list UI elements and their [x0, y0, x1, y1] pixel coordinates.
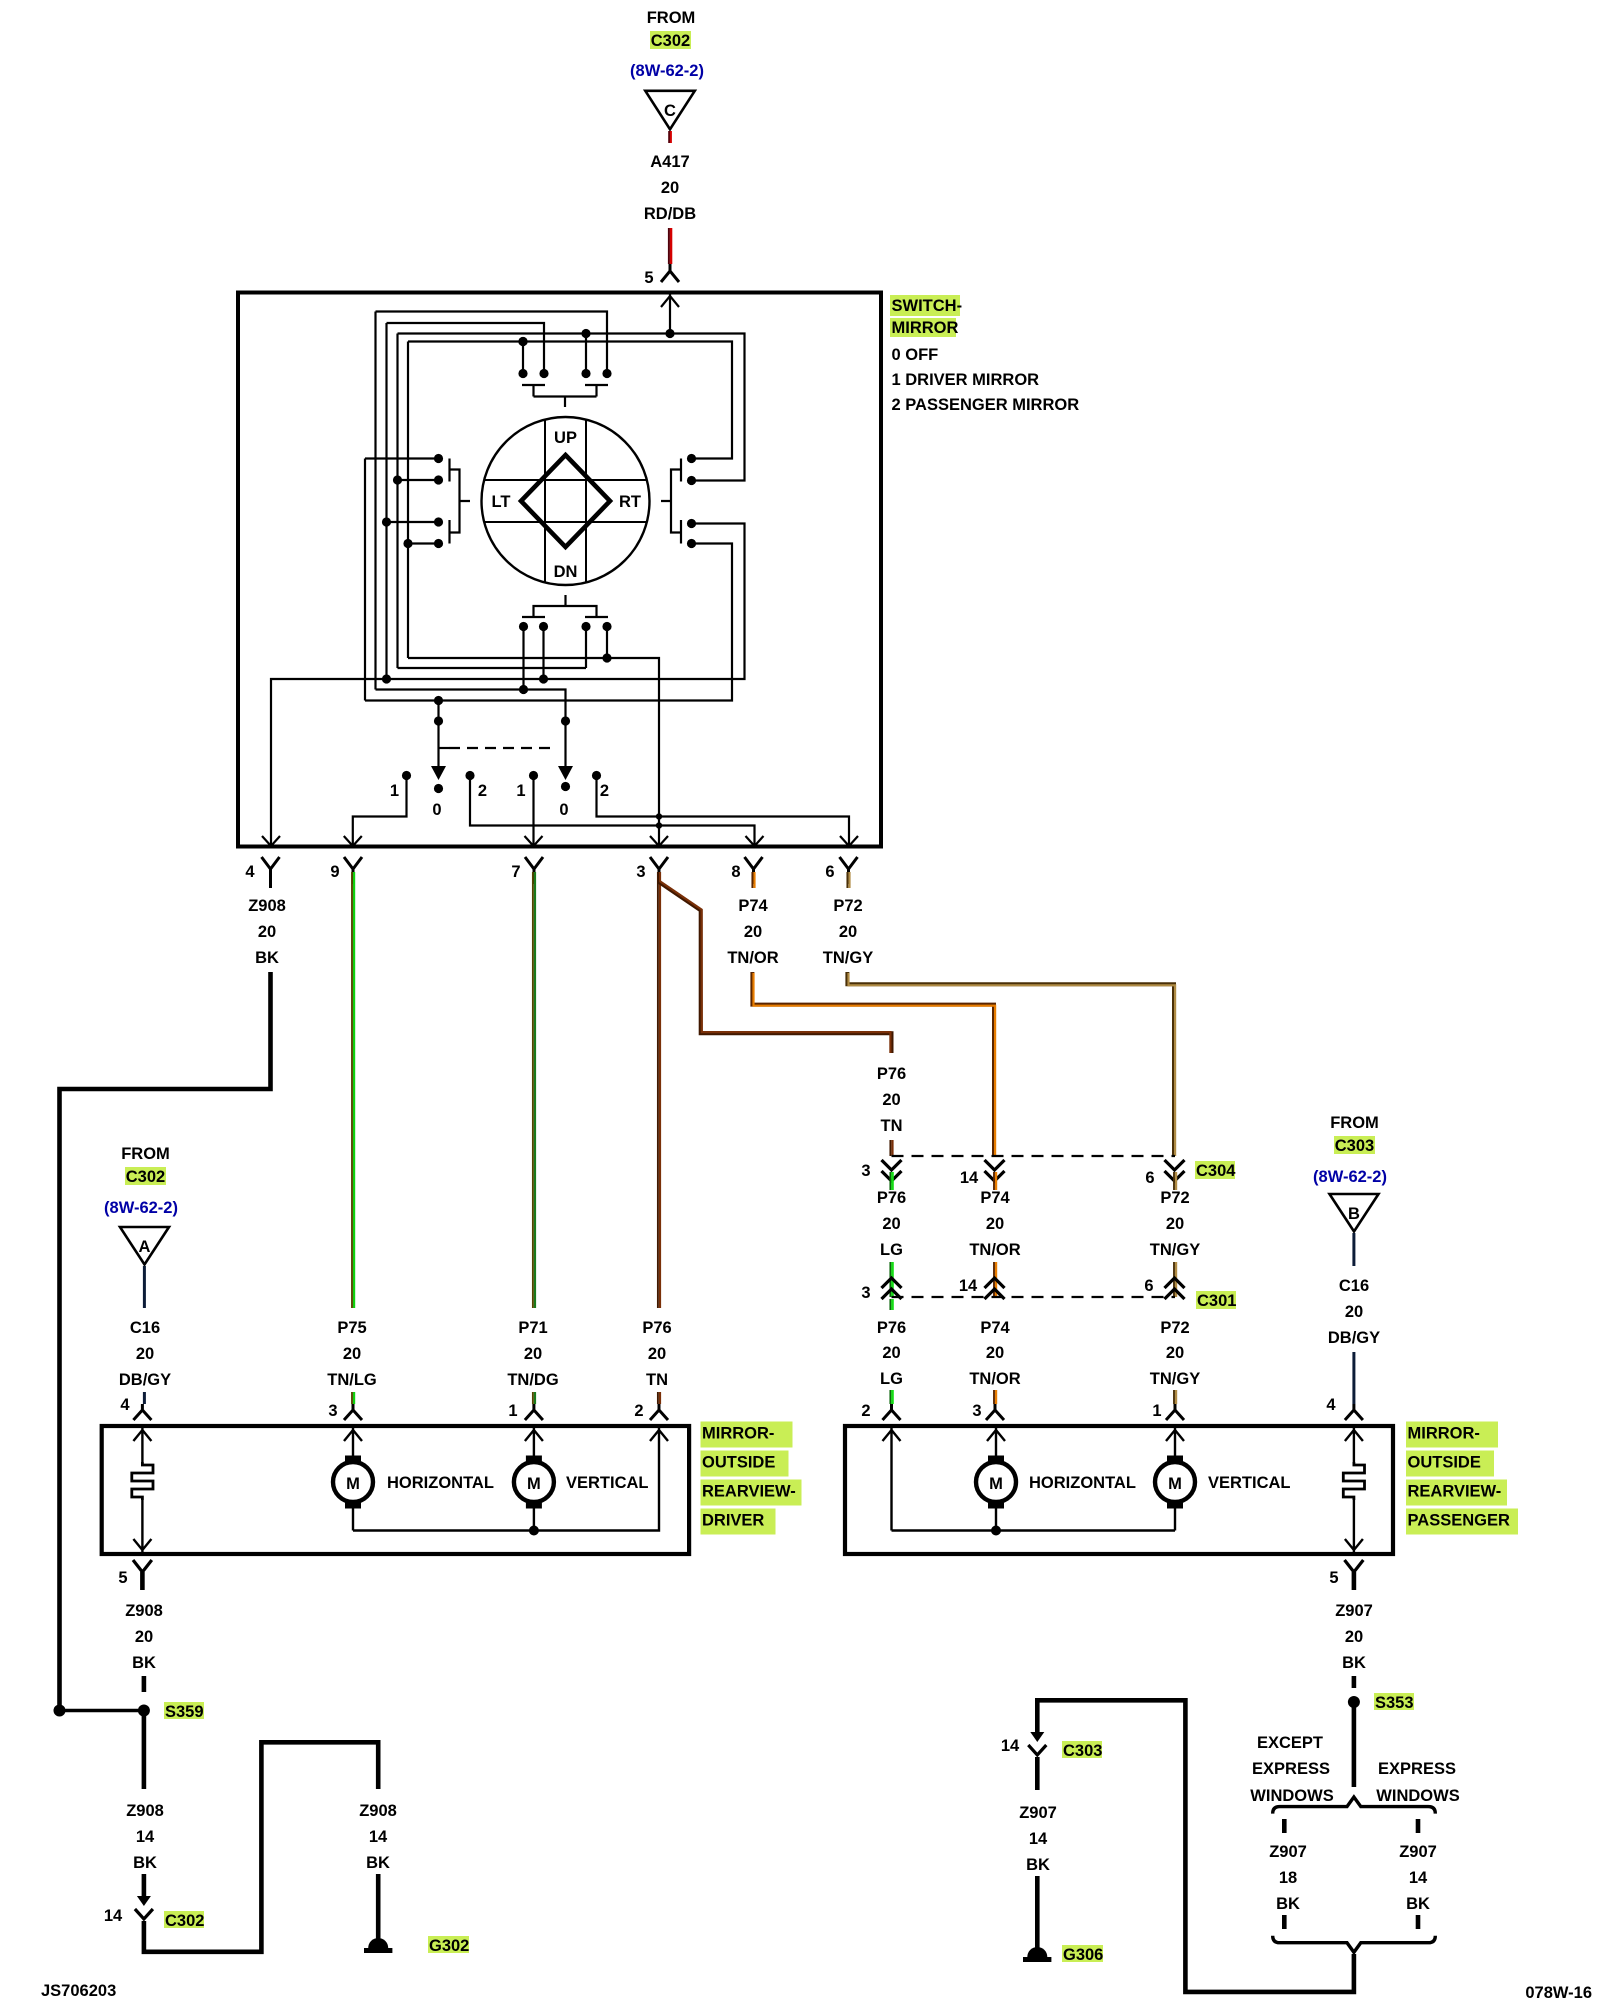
svg-text:14: 14 — [960, 1169, 979, 1187]
left switch contact bars — [448, 459, 450, 544]
right selector moving contact arrow — [558, 766, 573, 780]
switch pin 6 fork — [840, 857, 858, 884]
svg-text:P74: P74 — [980, 1189, 1010, 1207]
svg-text:C303: C303 — [1063, 1742, 1102, 1760]
svg-text:1: 1 — [1152, 1402, 1161, 1420]
wire P72 stub to passenger pin 1 — [1173, 1390, 1175, 1404]
driver mirror pin 2 fork — [650, 1404, 668, 1420]
driver mirror pin 5 fork — [133, 1560, 152, 1572]
svg-text:Z908: Z908 — [126, 1802, 164, 1820]
svg-text:S353: S353 — [1375, 1694, 1414, 1712]
selector diamond — [521, 455, 610, 547]
right switch contact bars — [680, 459, 682, 544]
passenger horizontal motor feed wire — [987, 1428, 1005, 1456]
svg-text:OUTSIDE: OUTSIDE — [1408, 1454, 1481, 1472]
dashed mechanical link between selectors — [439, 747, 450, 749]
wire P76 stub to driver pin 2 — [657, 1392, 659, 1404]
svg-text:P76: P76 — [877, 1319, 906, 1337]
svg-text:20: 20 — [986, 1215, 1004, 1233]
svg-text:20: 20 — [135, 1628, 153, 1646]
wire C16 DB/GY stub to driver pin 4 — [143, 1392, 146, 1404]
svg-text:TN/OR: TN/OR — [969, 1370, 1020, 1388]
svg-text:BK: BK — [366, 1854, 390, 1872]
wire Z907 route to C303 — [1037, 1700, 1354, 1992]
svg-text:MIRROR: MIRROR — [892, 319, 959, 337]
connector C301 pin 6 chevrons — [1165, 1278, 1185, 1299]
splice S353 — [1348, 1696, 1360, 1708]
wire net-A top horizontal to rocker line4 — [376, 312, 608, 374]
passenger horizontal motor M3 — [976, 1456, 1016, 1509]
wire Z907 stub above S353 — [1352, 1676, 1357, 1688]
left switch contact lead 1 — [365, 457, 439, 459]
passenger common feed wire pin2 — [883, 1428, 901, 1531]
svg-text:DB/GY: DB/GY — [119, 1371, 171, 1389]
driver mirror pin 4 fork — [133, 1404, 151, 1420]
wire Z908 staircase from C302 to G302 — [144, 1742, 378, 1952]
junction dots rocker top row — [518, 369, 527, 378]
svg-text:Z907: Z907 — [1399, 1843, 1437, 1861]
svg-text:C302: C302 — [651, 32, 690, 50]
svg-text:C: C — [664, 102, 676, 120]
svg-text:P75: P75 — [337, 1319, 366, 1337]
svg-text:EXCEPT: EXCEPT — [1257, 1734, 1323, 1752]
svg-text:18: 18 — [1279, 1869, 1297, 1887]
svg-text:BK: BK — [1406, 1895, 1430, 1913]
svg-text:1: 1 — [390, 782, 399, 800]
node C303 highlight label — [1334, 1136, 1375, 1154]
svg-text:14: 14 — [369, 1828, 388, 1846]
driver horizontal motor M1 — [333, 1456, 373, 1509]
rocker bottom bracket — [534, 606, 597, 617]
left switch contact lead 3 — [387, 521, 439, 523]
rocker stub A — [522, 627, 524, 690]
svg-text:2: 2 — [861, 1402, 870, 1420]
driver mirror pin 1 fork — [525, 1404, 543, 1420]
off-page connector triangle B — [1330, 1194, 1379, 1232]
svg-text:Z907: Z907 — [1269, 1843, 1307, 1861]
driver vertical motor feed wire — [525, 1428, 543, 1456]
wire A417 RD/DB vertical into switch pin 5 — [668, 228, 670, 264]
left switch contact lead 2 — [398, 479, 439, 481]
svg-text:TN/DG: TN/DG — [507, 1371, 558, 1389]
wire pin5 entry arrow up — [661, 296, 679, 307]
junction dot passenger rail — [991, 1526, 1001, 1536]
junction dots rocker bottom stubs — [519, 622, 528, 631]
svg-text:A417: A417 — [650, 153, 689, 171]
wire stub lower left option — [1282, 1915, 1287, 1929]
wire A417 RD/DB stub below triangle C — [668, 131, 670, 143]
svg-text:WINDOWS: WINDOWS — [1376, 1787, 1459, 1805]
svg-text:6: 6 — [1144, 1277, 1153, 1295]
svg-text:EXPRESS: EXPRESS — [1378, 1760, 1456, 1778]
pin 4 exit arrow — [262, 836, 280, 846]
driver mirror box — [102, 1426, 689, 1554]
svg-text:C302: C302 — [165, 1912, 204, 1930]
wire P74 TN/OR route to C304 pin 14 — [752, 972, 994, 1156]
svg-text:TN/LG: TN/LG — [327, 1371, 377, 1389]
passenger mirror pin 5 fork — [1345, 1560, 1364, 1572]
svg-text:P74: P74 — [980, 1319, 1010, 1337]
wire net-A bottom horizontal to right selector center — [376, 690, 566, 768]
pin 8 exit arrow — [746, 836, 764, 846]
junction dots selector verticals — [434, 716, 443, 725]
svg-text:HORIZONTAL: HORIZONTAL — [387, 1474, 494, 1492]
option split brace upper — [1273, 1797, 1436, 1814]
wire net-D top horizontal (rocker line1 / right contact1) — [408, 342, 732, 459]
passenger mirror pin 2 fork — [883, 1404, 901, 1420]
left switch lead junction dots on bundle — [393, 475, 402, 484]
connector C304 pin 3 chevrons — [882, 1160, 902, 1181]
junction dot rocker line3 top — [581, 329, 590, 338]
passenger mirror pin 4 fork — [1345, 1404, 1363, 1420]
driver vertical motor bottom lead — [533, 1508, 535, 1531]
svg-text:DRIVER: DRIVER — [702, 1512, 764, 1530]
connector C304 pin 14 chevrons — [985, 1160, 1005, 1181]
wire P74 TN/OR from switch pin 8 — [751, 872, 753, 888]
wire P76 TN branch diagonal to passenger feed — [659, 882, 892, 1053]
driver mirror heater element — [132, 1462, 153, 1500]
svg-text:1 DRIVER MIRROR: 1 DRIVER MIRROR — [892, 371, 1040, 389]
svg-text:3: 3 — [861, 1284, 870, 1302]
svg-text:5: 5 — [644, 269, 653, 287]
svg-text:C16: C16 — [130, 1319, 160, 1337]
wire Z908 below S359 — [142, 1711, 147, 1790]
svg-text:BK: BK — [1276, 1895, 1300, 1913]
svg-text:OUTSIDE: OUTSIDE — [702, 1454, 775, 1472]
svg-text:TN/OR: TN/OR — [727, 949, 778, 967]
passenger mirror box — [845, 1426, 1393, 1554]
svg-text:TN: TN — [646, 1371, 668, 1389]
svg-text:DB/GY: DB/GY — [1328, 1329, 1380, 1347]
wire P72 TN/GY stub into C301 — [1173, 1262, 1175, 1297]
svg-text:14: 14 — [1409, 1869, 1428, 1887]
selector circle — [482, 417, 650, 585]
svg-text:20: 20 — [136, 1345, 154, 1363]
svg-text:3: 3 — [636, 863, 645, 881]
passenger mirror pin 3 fork — [986, 1404, 1004, 1420]
svg-text:G306: G306 — [1063, 1946, 1103, 1964]
svg-text:5: 5 — [118, 1569, 127, 1587]
rocker bottom stem — [564, 595, 566, 606]
svg-text:3: 3 — [972, 1402, 981, 1420]
svg-text:LG: LG — [880, 1241, 903, 1259]
wire Z908 to ground G302 — [376, 1874, 381, 1944]
svg-text:EXPRESS: EXPRESS — [1252, 1760, 1330, 1778]
svg-text:P76: P76 — [877, 1189, 906, 1207]
svg-text:20: 20 — [661, 179, 679, 197]
svg-text:G302: G302 — [429, 1937, 469, 1955]
driver heater wire to bottom and exit arrow — [133, 1500, 151, 1552]
svg-text:20: 20 — [648, 1345, 666, 1363]
svg-text:9: 9 — [330, 863, 339, 881]
svg-text:SWITCH-: SWITCH- — [892, 297, 963, 315]
svg-text:C303: C303 — [1335, 1137, 1374, 1155]
svg-text:C301: C301 — [1197, 1292, 1236, 1310]
rocker stub D — [606, 627, 608, 659]
pin 7 exit arrow — [525, 836, 543, 846]
left switch contact dots — [434, 454, 443, 463]
junction dot left selector top — [434, 696, 443, 705]
svg-text:20: 20 — [1166, 1215, 1184, 1233]
svg-text:BK: BK — [133, 1854, 157, 1872]
svg-text:FROM: FROM — [121, 1145, 170, 1163]
svg-text:P72: P72 — [1160, 1319, 1189, 1337]
passenger mirror heater element — [1343, 1462, 1364, 1500]
ground symbol G306 — [1027, 1947, 1047, 1957]
switch pin 9 fork — [344, 857, 362, 884]
svg-text:2: 2 — [634, 1402, 643, 1420]
svg-text:20: 20 — [258, 923, 276, 941]
svg-text:HORIZONTAL: HORIZONTAL — [1029, 1474, 1136, 1492]
svg-text:3: 3 — [328, 1402, 337, 1420]
svg-text:TN/GY: TN/GY — [823, 949, 873, 967]
junction dot driver rail — [529, 1526, 539, 1536]
wire pin5 entry vertical into box — [669, 294, 671, 334]
selector circle chords — [484, 420, 646, 583]
wire Z907 to ground G306 — [1035, 1876, 1040, 1953]
svg-text:S359: S359 — [165, 1703, 204, 1721]
svg-text:MIRROR-: MIRROR- — [1408, 1425, 1480, 1443]
svg-text:7: 7 — [511, 863, 520, 881]
svg-text:UP: UP — [554, 429, 577, 447]
svg-text:14: 14 — [1001, 1737, 1020, 1755]
right switch gate bracket — [661, 470, 681, 533]
driver common return rail and pin2 wire — [353, 1428, 668, 1531]
svg-text:RD/DB: RD/DB — [644, 205, 696, 223]
svg-text:0: 0 — [559, 801, 568, 819]
svg-text:WINDOWS: WINDOWS — [1250, 1787, 1333, 1805]
option merge brace lower — [1273, 1936, 1436, 1953]
driver mirror pin 3 fork — [344, 1404, 362, 1420]
junction dots net-B ground row — [382, 674, 391, 683]
component label MIRROR-OUTSIDE REARVIEW-PASSENGER — [1406, 1422, 1498, 1448]
svg-text:20: 20 — [882, 1091, 900, 1109]
svg-text:5: 5 — [1329, 1569, 1338, 1587]
svg-text:2 PASSENGER MIRROR: 2 PASSENGER MIRROR — [892, 396, 1080, 414]
wire P71 TN/DG from switch pin 7 — [532, 872, 534, 1308]
svg-text:LT: LT — [492, 493, 511, 511]
node C302 left highlight label — [125, 1167, 166, 1185]
svg-text:20: 20 — [343, 1345, 361, 1363]
svg-text:6: 6 — [1145, 1169, 1154, 1187]
junction dot left riser at S359 — [54, 1705, 66, 1717]
svg-text:TN/OR: TN/OR — [969, 1241, 1020, 1259]
selector position dots row — [402, 771, 411, 780]
svg-text:BK: BK — [255, 949, 279, 967]
wire Z908 BK from switch pin 4 down-left — [60, 972, 271, 1711]
svg-text:P72: P72 — [833, 897, 862, 915]
pin 9 exit arrow — [344, 836, 362, 846]
left selector moving contact vertical — [437, 701, 439, 768]
svg-text:M: M — [1168, 1475, 1182, 1493]
wire Z908 into C302 connector — [142, 1874, 147, 1898]
pin 3 exit arrow — [650, 836, 668, 846]
svg-text:Z908: Z908 — [125, 1602, 163, 1620]
svg-text:MIRROR-: MIRROR- — [702, 1425, 774, 1443]
wire P76 LG stub below C304 — [889, 1172, 891, 1190]
svg-text:VERTICAL: VERTICAL — [566, 1474, 649, 1492]
svg-text:14: 14 — [104, 1907, 123, 1925]
svg-text:(8W-62-2): (8W-62-2) — [1313, 1168, 1387, 1186]
right selector position 1 wire to pin 7 — [532, 776, 534, 847]
svg-text:14: 14 — [959, 1277, 978, 1295]
wire P71 stub to driver pin 1 — [532, 1392, 534, 1404]
wire P72 TN/GY from switch pin 6 — [846, 872, 848, 888]
svg-text:8: 8 — [731, 863, 740, 881]
svg-text:TN/GY: TN/GY — [1150, 1241, 1200, 1259]
svg-text:2: 2 — [600, 782, 609, 800]
driver horizontal motor bottom lead — [352, 1508, 354, 1531]
left selector moving contact arrow — [431, 766, 446, 780]
svg-text:20: 20 — [1345, 1628, 1363, 1646]
wire net-D bottom horizontal to pin 3 — [408, 658, 659, 846]
passenger horizontal motor bottom lead — [995, 1508, 997, 1531]
wire C16 DB/GY to passenger pin 4 — [1352, 1352, 1355, 1404]
svg-text:JS706203: JS706203 — [41, 1982, 116, 2000]
svg-text:FROM: FROM — [647, 9, 696, 27]
wire stub lower right option — [1416, 1915, 1421, 1929]
switch pin 3 fork — [650, 857, 668, 884]
svg-text:Z908: Z908 — [359, 1802, 397, 1820]
svg-text:20: 20 — [986, 1344, 1004, 1362]
rocker top contact bars — [522, 385, 608, 397]
svg-text:1: 1 — [516, 782, 525, 800]
svg-text:Z908: Z908 — [248, 897, 286, 915]
wire Z908 stub above S359 — [142, 1676, 147, 1692]
off-page connector triangle A — [120, 1227, 169, 1265]
wire bundle vertical E — [364, 459, 366, 701]
wire rocker line3 — [585, 334, 587, 374]
svg-text:FROM: FROM — [1330, 1114, 1379, 1132]
connector C301 highlight label — [1196, 1291, 1236, 1309]
wire bundle vertical B — [385, 323, 387, 679]
svg-text:20: 20 — [1166, 1344, 1184, 1362]
svg-text:14: 14 — [1029, 1830, 1048, 1848]
wire Z908 BK stub below switch pin 4 — [269, 872, 272, 888]
passenger common return rail — [892, 1529, 1176, 1531]
wire net-C top horizontal (pin5 net to right contact2) — [398, 334, 745, 481]
svg-text:P76: P76 — [642, 1319, 671, 1337]
inline connector C302 (arrow and chevron) — [137, 1896, 151, 1906]
svg-text:20: 20 — [744, 923, 762, 941]
pin 6 exit arrow — [840, 836, 858, 846]
component label MIRROR-OUTSIDE REARVIEW-DRIVER — [701, 1422, 793, 1448]
wire P72 TN/GY route to C304 pin 6 — [847, 972, 1174, 1156]
left selector position 1 wire to pin 9 — [353, 776, 407, 847]
wire net-C bottom horizontal to rocker stub C — [398, 667, 587, 669]
wire P76 LG stub into C301 — [889, 1262, 891, 1297]
wire Z907 below S353 — [1352, 1702, 1357, 1787]
svg-text:C16: C16 — [1339, 1277, 1369, 1295]
svg-text:20: 20 — [1345, 1303, 1363, 1321]
passenger vertical motor M4 — [1155, 1456, 1195, 1509]
svg-text:14: 14 — [136, 1828, 155, 1846]
svg-text:P72: P72 — [1160, 1189, 1189, 1207]
svg-text:TN/GY: TN/GY — [1150, 1370, 1200, 1388]
passenger heater wire and entry arrow — [1345, 1428, 1363, 1462]
svg-text:20: 20 — [839, 923, 857, 941]
junction dot pin5 net — [665, 329, 674, 338]
driver heater wire and entry arrow — [133, 1428, 151, 1462]
svg-text:4: 4 — [245, 863, 255, 881]
splice S359 — [138, 1705, 150, 1717]
svg-text:DN: DN — [554, 563, 578, 581]
switch pin 4 fork — [262, 857, 280, 884]
switch pin 8 fork — [745, 857, 763, 884]
svg-text:M: M — [527, 1475, 541, 1493]
svg-text:A: A — [139, 1238, 151, 1256]
net-D junction dot on top rail — [518, 337, 527, 346]
svg-text:C304: C304 — [1196, 1162, 1236, 1180]
junction dot stub A / net-A — [519, 685, 528, 694]
switch pin 7 fork — [525, 857, 543, 884]
svg-text:REARVIEW-: REARVIEW- — [1408, 1483, 1502, 1501]
left selector position 2 wire to pin 8 — [470, 776, 755, 847]
svg-text:1: 1 — [508, 1402, 517, 1420]
svg-text:B: B — [1348, 1205, 1360, 1223]
svg-text:0: 0 — [432, 801, 441, 819]
svg-text:VERTICAL: VERTICAL — [1208, 1474, 1291, 1492]
svg-text:0 OFF: 0 OFF — [892, 346, 939, 364]
left switch gate bracket — [450, 470, 471, 533]
svg-text:(8W-62-2): (8W-62-2) — [630, 62, 704, 80]
crossing blobs on pin3 vertical — [656, 813, 662, 819]
svg-text:TN: TN — [881, 1117, 903, 1135]
wire net-E bottom horizontal to right contact4 — [365, 544, 732, 701]
wire P74 TN/OR stub into C301 — [993, 1262, 995, 1297]
wire P76 stub into C304 — [889, 1140, 891, 1156]
connector C301 pin 14 chevrons — [985, 1278, 1005, 1299]
wire P75 stub to driver pin 3 — [351, 1392, 353, 1404]
svg-text:3: 3 — [861, 1162, 870, 1180]
svg-text:LG: LG — [880, 1370, 903, 1388]
passenger vertical motor feed wire — [1166, 1428, 1184, 1456]
rocker stub B — [542, 627, 544, 680]
svg-text:078W-16: 078W-16 — [1525, 1984, 1592, 2000]
svg-text:BK: BK — [1026, 1856, 1050, 1874]
connector C304 highlight label — [1195, 1161, 1235, 1179]
svg-text:REARVIEW-: REARVIEW- — [702, 1483, 796, 1501]
rocker stub C — [585, 627, 587, 669]
left switch contact lead 4 — [408, 542, 439, 544]
node C302 top highlight label — [650, 31, 691, 49]
svg-text:4: 4 — [1326, 1396, 1336, 1414]
svg-text:(8W-62-2): (8W-62-2) — [104, 1199, 178, 1217]
connector C304 pin 6 chevrons — [1165, 1160, 1185, 1181]
wire bundle vertical D — [407, 342, 409, 659]
svg-text:6: 6 — [825, 863, 834, 881]
wire P74 TN/OR stub below C304 — [993, 1172, 995, 1190]
off-page connector triangle C — [645, 91, 695, 130]
driver horizontal motor feed wire — [344, 1428, 362, 1456]
switch pin 5 connector fork — [661, 264, 679, 282]
rocker top bracket — [534, 397, 597, 408]
svg-text:P76: P76 — [877, 1065, 906, 1083]
wire P76 LG stub to passenger pin 2 — [889, 1390, 891, 1404]
connector C304 dashed line — [892, 1155, 1176, 1157]
wire P76 LG stub below C301 — [889, 1299, 891, 1310]
inline connector C303 (arrow and chevron) — [1030, 1732, 1044, 1742]
right selector position 2 wire to pin 6 — [597, 776, 850, 847]
svg-text:RT: RT — [619, 493, 641, 511]
wire Z907 18 BK dashed stub upper — [1282, 1819, 1287, 1833]
svg-text:M: M — [989, 1475, 1003, 1493]
svg-text:4: 4 — [120, 1396, 130, 1414]
right switch contact dots — [687, 454, 696, 463]
wire C16 DB/GY stub below triangle B — [1352, 1233, 1355, 1266]
wire Z907 14 BK dashed stub upper — [1416, 1819, 1421, 1833]
svg-text:2: 2 — [478, 782, 487, 800]
